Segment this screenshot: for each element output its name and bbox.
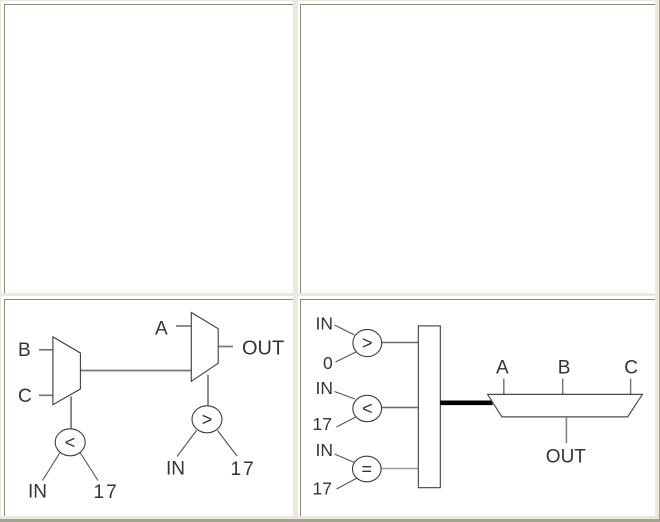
wire comparator LT1 to label 17 — [80, 453, 98, 481]
wire mux M2 output — [218, 346, 233, 348]
svg-text:17: 17 — [313, 414, 332, 434]
bottom-left canvas panel — [1, 296, 293, 516]
wire comparator LT1 to label IN — [43, 453, 61, 481]
window frame shadow bottom edge — [0, 519, 660, 522]
svg-text:B: B — [558, 358, 571, 379]
wire mux M1 select — [70, 397, 72, 429]
wire B input — [39, 349, 54, 351]
svg-text:IN: IN — [316, 378, 334, 398]
svg-text:=: = — [362, 459, 373, 479]
mux M1 — [53, 337, 81, 405]
wire mux M2 select — [207, 375, 209, 406]
svg-text:>: > — [202, 410, 213, 430]
wire 17 to comparator EQ1 — [337, 478, 358, 489]
wire comparator EQ1 to combiner (gray) — [381, 468, 419, 470]
wire select stub C — [630, 379, 632, 395]
wire IN to comparator GT2 — [335, 325, 355, 335]
svg-text:>: > — [362, 333, 373, 353]
svg-text:IN: IN — [316, 440, 334, 460]
comparator GT2 — [353, 329, 382, 356]
svg-text:<: < — [362, 399, 373, 419]
svg-text:0: 0 — [323, 353, 333, 373]
bottom-right canvas panel — [298, 296, 656, 516]
svg-text:IN: IN — [28, 482, 47, 503]
svg-text:IN: IN — [316, 314, 334, 334]
svg-text:17: 17 — [231, 459, 256, 480]
wire comparator GT2 to combiner — [381, 342, 418, 344]
wire select stub B — [562, 379, 564, 395]
comparator LT1 — [55, 429, 85, 456]
window frame shadow right edge — [659, 0, 660, 522]
wire 0 to comparator GT2 — [336, 352, 357, 362]
svg-text:A: A — [496, 358, 509, 379]
svg-text:C: C — [624, 358, 638, 379]
svg-text:IN: IN — [166, 459, 185, 480]
combiner register rect — [418, 326, 440, 488]
comparator LT2 — [353, 395, 382, 421]
wire 17 to comparator LT2 — [337, 416, 358, 427]
wire A input — [176, 325, 191, 327]
svg-text:<: < — [65, 433, 76, 453]
mux M3 — [488, 394, 643, 417]
wire IN to comparator EQ1 — [335, 454, 355, 463]
svg-text:OUT: OUT — [242, 338, 284, 360]
wire C input — [39, 394, 54, 396]
svg-text:B: B — [18, 340, 31, 361]
wire mux M1 output to mux M2 — [80, 370, 191, 372]
comparator GT1 — [192, 406, 222, 433]
svg-text:OUT: OUT — [546, 447, 587, 468]
svg-text:A: A — [155, 319, 168, 340]
top-left empty canvas panel — [1, 1, 293, 293]
wire IN to comparator LT2 — [335, 392, 356, 400]
wire mux M3 output — [565, 417, 567, 443]
mux M2 — [191, 313, 218, 382]
svg-text:C: C — [18, 386, 32, 407]
svg-text:17: 17 — [94, 482, 119, 503]
wire comparator LT2 to combiner — [381, 407, 418, 409]
svg-text:17: 17 — [313, 479, 332, 499]
wire comparator GT1 to label 17 — [218, 431, 238, 457]
wire select stub A — [503, 379, 505, 395]
wire comparator GT1 to label IN — [177, 431, 197, 457]
thick bus wire — [440, 400, 492, 405]
top-right empty canvas panel — [298, 1, 656, 293]
comparator EQ1 — [353, 456, 382, 482]
